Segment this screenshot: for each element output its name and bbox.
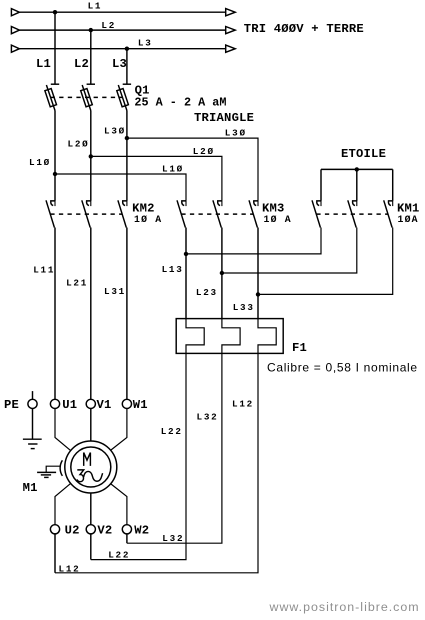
wire motor to W2 bbox=[111, 484, 127, 525]
wire U2 down bbox=[54, 534, 56, 573]
svg-text:L12: L12 bbox=[232, 398, 254, 409]
wire KM1 pole 1 out to node L13 bbox=[186, 228, 321, 254]
switch-fuse Q1 pole 3 bbox=[117, 84, 131, 110]
svg-text:M1: M1 bbox=[23, 481, 38, 495]
svg-text:L2Ø: L2Ø bbox=[193, 146, 215, 157]
wire L20 rail to KM3 bbox=[91, 156, 222, 201]
svg-text:W1: W1 bbox=[133, 398, 148, 412]
svg-text:L1: L1 bbox=[36, 57, 51, 71]
svg-text:L13: L13 bbox=[162, 264, 184, 275]
svg-text:1Ø A: 1Ø A bbox=[134, 214, 162, 225]
source arrow left L3 bbox=[11, 45, 19, 52]
contactor KM3 pole 2 bbox=[213, 200, 222, 227]
wire L3 drop to Q1 bbox=[126, 49, 128, 84]
contactor KM1 pole 2 bbox=[348, 200, 357, 227]
contactor KM1 pole 1 bbox=[312, 200, 321, 227]
wire W2 down bbox=[126, 534, 128, 543]
svg-text:U2: U2 bbox=[65, 524, 80, 538]
source arrow right L1 bbox=[226, 9, 236, 16]
motor M1 inner circle bbox=[71, 447, 111, 487]
terminal W1 bbox=[122, 399, 131, 408]
wire KM1 pole 2 out to node L23 bbox=[222, 228, 357, 274]
svg-text:L21: L21 bbox=[66, 278, 88, 289]
Q1 mechanical link (dashed) bbox=[51, 96, 123, 98]
wire L21 (KM2 to motor) bbox=[90, 228, 92, 400]
svg-text:L32: L32 bbox=[162, 533, 184, 544]
terminal V1 bbox=[86, 399, 95, 408]
terminal V2 bbox=[86, 525, 95, 534]
terminal U2 bbox=[50, 525, 59, 534]
svg-text:L23: L23 bbox=[196, 287, 218, 298]
svg-text:TRIANGLE: TRIANGLE bbox=[194, 111, 254, 125]
svg-text:U1: U1 bbox=[62, 398, 77, 412]
wire PE to earth bbox=[32, 409, 34, 440]
svg-text:ETOILE: ETOILE bbox=[341, 147, 386, 161]
contactor KM3 pole 1 bbox=[177, 200, 186, 227]
svg-text:V1: V1 bbox=[97, 398, 112, 412]
wire L20 vertical (Q1 to KM2) bbox=[90, 111, 92, 201]
node star-point junction bbox=[355, 167, 359, 171]
source arrow left L2 bbox=[11, 27, 19, 34]
wire L1 drop to Q1 bbox=[54, 12, 56, 84]
wire L13 (KM3 to F1) bbox=[185, 228, 187, 319]
svg-text:L2: L2 bbox=[74, 57, 89, 71]
node L20 junction bbox=[89, 154, 93, 158]
wire L11 (KM2 to motor) bbox=[54, 228, 56, 400]
source arrow right L3 bbox=[226, 45, 236, 52]
thermal relay F1 element 1 bbox=[186, 319, 204, 354]
svg-text:PE: PE bbox=[4, 398, 19, 412]
motor label 3 bbox=[77, 470, 84, 482]
wire bus L2 bbox=[19, 29, 225, 31]
svg-text:Calibre = 0,58 I nominale: Calibre = 0,58 I nominale bbox=[267, 360, 418, 374]
svg-text:L3Ø: L3Ø bbox=[225, 127, 247, 138]
svg-text:F1: F1 bbox=[292, 341, 307, 355]
svg-text:L31: L31 bbox=[104, 286, 126, 297]
svg-text:L3: L3 bbox=[112, 57, 127, 71]
ground PE earth bbox=[23, 439, 42, 448]
thermal relay F1 body bbox=[176, 319, 283, 354]
wire L10 rail to KM3 bbox=[55, 174, 186, 201]
svg-text:L3: L3 bbox=[138, 38, 153, 49]
svg-text:L2Ø: L2Ø bbox=[68, 138, 90, 149]
KM2 mechanical link (dashed) bbox=[50, 213, 122, 215]
svg-text:1Ø A: 1Ø A bbox=[264, 214, 292, 225]
node L13 junction bbox=[184, 252, 188, 256]
wire KM1 pole 3 top bbox=[392, 169, 394, 201]
svg-text:L12: L12 bbox=[59, 563, 81, 574]
wire motor to V2 bbox=[90, 493, 92, 525]
motor frame arc bbox=[60, 460, 62, 476]
svg-text:W2: W2 bbox=[134, 524, 149, 538]
wire L2 drop to Q1 bbox=[90, 30, 92, 84]
KM1 mechanical link (dashed) bbox=[316, 213, 388, 215]
wire L33 (KM3 to F1) bbox=[257, 228, 259, 319]
wire L32 (F1 to W2) bbox=[127, 353, 222, 543]
svg-text:L11: L11 bbox=[33, 264, 55, 275]
svg-text:L3Ø: L3Ø bbox=[104, 126, 126, 137]
svg-text:TRI 4ØØV + TERRE: TRI 4ØØV + TERRE bbox=[244, 22, 364, 36]
motor label phase wave bbox=[84, 471, 103, 481]
KM3 mechanical link (dashed) bbox=[181, 213, 253, 215]
wire motor to U2 bbox=[55, 484, 71, 525]
contactor KM3 pole 3 bbox=[249, 200, 258, 227]
node L1 junction bbox=[53, 10, 57, 14]
wire L10 vertical (Q1 to KM2) bbox=[54, 111, 56, 201]
wire L22 (F1 to V2) bbox=[91, 353, 186, 559]
ground motor earth bbox=[37, 472, 56, 477]
switch-fuse Q1 pole 2 bbox=[81, 84, 95, 110]
wire V2 down bbox=[90, 534, 92, 560]
svg-text:www.positron-libre.com: www.positron-libre.com bbox=[269, 600, 420, 614]
wire U1 to motor bbox=[55, 409, 71, 451]
svg-text:1ØA: 1ØA bbox=[398, 214, 419, 225]
svg-text:25 A - 2 A aM: 25 A - 2 A aM bbox=[134, 96, 226, 110]
node L3 junction bbox=[125, 47, 129, 51]
wire PE stub bbox=[32, 391, 34, 399]
wire L23 (KM3 to F1) bbox=[221, 228, 223, 319]
wire motor frame to earth bbox=[46, 466, 60, 472]
node L10 junction bbox=[53, 172, 57, 176]
terminal W2 bbox=[122, 525, 131, 534]
terminal PE bbox=[28, 399, 37, 408]
contactor KM1 pole 3 bbox=[384, 200, 393, 227]
svg-text:L1: L1 bbox=[88, 0, 103, 11]
wire L30 rail to KM3 bbox=[127, 138, 258, 201]
svg-text:L22: L22 bbox=[108, 549, 130, 560]
contactor KM2 pole 1 bbox=[46, 200, 55, 227]
node L30 junction bbox=[125, 136, 129, 140]
wire L31 (KM2 to motor) bbox=[126, 228, 128, 400]
node L23 junction bbox=[220, 271, 224, 275]
wire W1 to motor bbox=[111, 409, 127, 451]
thermal relay F1 element 3 bbox=[258, 319, 276, 354]
svg-text:L2: L2 bbox=[101, 20, 116, 31]
wire KM1 pole 2 top bbox=[356, 169, 358, 201]
thermal relay F1 element 2 bbox=[222, 319, 240, 354]
svg-text:L1Ø: L1Ø bbox=[29, 157, 51, 168]
source arrow right L2 bbox=[226, 27, 236, 34]
wire L12 (F1 to U2) bbox=[55, 353, 258, 572]
terminal U1 bbox=[50, 399, 59, 408]
wire KM1 pole 3 out to node L33 bbox=[258, 228, 393, 295]
node L2 junction bbox=[89, 28, 93, 32]
contactor KM2 pole 3 bbox=[118, 200, 127, 227]
wire bus L1 bbox=[19, 11, 225, 13]
switch-fuse Q1 pole 1 bbox=[45, 84, 59, 110]
source arrow left L1 bbox=[11, 9, 19, 16]
wire bus L3 bbox=[19, 48, 225, 50]
svg-text:L22: L22 bbox=[161, 426, 183, 437]
motor label M bbox=[84, 453, 91, 466]
node L33 junction bbox=[256, 292, 260, 296]
contactor KM2 pole 2 bbox=[82, 200, 91, 227]
wire V1 to motor bbox=[90, 409, 92, 442]
svg-text:L33: L33 bbox=[233, 302, 255, 313]
wire L30 vertical (Q1 to KM2) bbox=[126, 111, 128, 201]
svg-text:L32: L32 bbox=[197, 411, 219, 422]
svg-text:L1Ø: L1Ø bbox=[162, 164, 184, 175]
motor M1 outer circle bbox=[65, 441, 117, 493]
wire KM1 pole 1 top bbox=[320, 169, 322, 201]
wire star-point bridge bbox=[321, 168, 393, 170]
svg-text:V2: V2 bbox=[97, 524, 112, 538]
